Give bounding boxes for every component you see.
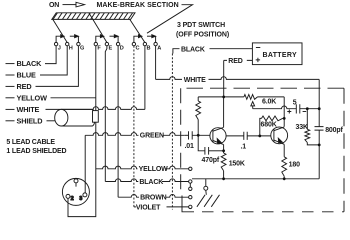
svg-text:.01: .01 [185, 143, 195, 150]
label RED (cable lead) [6, 82, 32, 91]
socket pin extra (below BLACK) [189, 183, 192, 190]
resistor R1 base bias [196, 97, 201, 135]
svg-text:YELLOW: YELLOW [139, 166, 169, 173]
svg-text:800pf: 800pf [325, 127, 343, 134]
resistor R6 33K [305, 109, 319, 145]
svg-text:A: A [157, 45, 161, 51]
wire YELLOW row [96, 166, 189, 173]
wire J to BLACK [45, 46, 56, 64]
svg-text:BROWN: BROWN [140, 195, 167, 202]
wire Q1 collector to rail [223, 97, 225, 127]
svg-text:WHITE: WHITE [17, 105, 40, 114]
arrow ON direction [63, 2, 85, 7]
switch contact C [132, 42, 139, 51]
polarity + of C4 [287, 110, 291, 114]
switch contact A [154, 42, 161, 51]
svg-text:6.0K: 6.0K [262, 98, 276, 105]
socket pin YELLOW [189, 167, 192, 170]
svg-text:G: G [80, 45, 84, 51]
wire D down to BROWN row [117, 46, 119, 197]
svg-text:470pf: 470pf [202, 157, 220, 164]
svg-text:(OFF POSITION): (OFF POSITION) [176, 32, 229, 39]
leader line to 3 PDT SWITCH text [147, 5, 193, 34]
transistor Q2 [271, 127, 288, 144]
wire BROWN row [118, 194, 189, 201]
svg-text:BLACK: BLACK [139, 179, 163, 186]
switch contact D [116, 42, 123, 51]
svg-text:J: J [58, 45, 61, 51]
switch arm pole 3 [130, 19, 145, 42]
ground rail [192, 178, 319, 180]
capacitor C5 800pf [315, 109, 324, 145]
connector pin 2 [66, 194, 74, 201]
svg-text:VIOLET: VIOLET [136, 204, 161, 211]
arrow pole2 to D [110, 35, 119, 43]
wire GREEN row [85, 133, 185, 140]
switch contact G [77, 42, 85, 51]
resistor R3 150K [221, 153, 226, 179]
polarity - of C4 [303, 111, 307, 113]
label YELLOW (cable lead) [6, 93, 48, 102]
label WHITE (cable lead) [6, 105, 40, 114]
svg-text:150K: 150K [229, 160, 245, 167]
arrow pole1 to G [70, 35, 79, 43]
cable sleeve (5 lead cable) [55, 109, 99, 126]
wire Q2 emitter [283, 144, 285, 157]
wire output node down to ground rail [318, 145, 320, 179]
svg-text:MAKE-BREAK SECTION: MAKE-BREAK SECTION [97, 2, 179, 9]
socket pin VIOLET [189, 205, 192, 208]
battery BT1 [252, 43, 302, 65]
arrow pole1 from J [56, 35, 64, 43]
switch actuator bar (hatched) [52, 13, 135, 20]
label SHIELD (cable lead) [6, 116, 43, 125]
arrow pole2 from F [96, 35, 104, 43]
chassis ground [197, 179, 220, 207]
svg-text:YELLOW: YELLOW [17, 93, 48, 102]
svg-text:5 LEAD CABLE: 5 LEAD CABLE [6, 139, 55, 146]
junction dots [197, 96, 321, 181]
wire pin3 to GREEN row [84, 135, 86, 193]
switch contact H [66, 42, 73, 51]
capacitor C3 .1 [226, 132, 274, 140]
switch arm pole 2 [89, 13, 107, 43]
label BLUE (cable lead) [6, 71, 37, 80]
wire SHIELD to cable [47, 120, 56, 122]
potentiometer R2 6.0K [244, 95, 258, 109]
svg-text:GREEN: GREEN [140, 133, 164, 140]
svg-text:H: H [69, 45, 73, 51]
wire Q2 collector to rail [283, 97, 285, 127]
svg-text:SHIELD: SHIELD [17, 116, 43, 125]
shield line (dashed) to chassis [171, 54, 173, 210]
svg-text:.1: .1 [241, 143, 247, 150]
svg-text:C: C [136, 45, 140, 51]
svg-text:BLUE: BLUE [17, 71, 37, 80]
amplifier shield box (dashed) [181, 88, 344, 212]
resistor R5 180 [282, 157, 287, 179]
wire H to BLUE [40, 46, 67, 75]
wire G to RED [36, 46, 79, 87]
arrow pole3 to A [147, 35, 156, 43]
svg-text:3 PDT SWITCH: 3 PDT SWITCH [177, 22, 225, 29]
connector shell [62, 178, 89, 205]
svg-text:BLACK: BLACK [181, 46, 205, 53]
switch contact J [54, 42, 60, 51]
wire C (shielded lead, dashed) down to VIOLET row [133, 46, 135, 207]
wire WHITE to B (crossovers) [46, 107, 145, 110]
resistor R4 680K feedback [260, 116, 284, 136]
svg-text:5: 5 [293, 99, 297, 106]
capacitor C1 .01 input [185, 131, 213, 139]
svg-text:33K: 33K [296, 124, 308, 131]
arrow pole3 from C [134, 35, 142, 43]
svg-text:E: E [109, 45, 113, 51]
svg-text:2: 2 [71, 196, 74, 202]
socket pin BROWN [189, 196, 192, 199]
svg-text:BLACK: BLACK [17, 59, 43, 68]
svg-text:B: B [147, 45, 151, 51]
capacitor C2 470pf [198, 135, 223, 154]
wire BLACK row [105, 179, 188, 186]
connector pin 3 [79, 193, 87, 202]
svg-text:680K: 680K [261, 122, 277, 129]
wire VIOLET row [134, 204, 189, 211]
svg-text:D: D [120, 45, 124, 51]
svg-text:RED: RED [17, 82, 32, 91]
capacitor C4 5uf electrolytic [296, 104, 319, 113]
connector pin 1 [74, 179, 78, 187]
switch arm pole 1 [53, 19, 67, 42]
supply rail +V [198, 96, 284, 98]
wire battery positive RED [224, 58, 253, 97]
transistor Q1 [210, 127, 226, 144]
switch contact E [105, 42, 112, 51]
svg-text:180: 180 [289, 161, 300, 168]
wiper line to coupling cap [253, 106, 297, 109]
wire battery negative BLACK [173, 46, 253, 53]
label BLACK (cable lead) [6, 59, 43, 68]
svg-text:BATTERY: BATTERY [263, 52, 297, 59]
svg-text:1 LEAD SHIELDED: 1 LEAD SHIELDED [6, 148, 66, 155]
wire A to amp output WHITE [156, 46, 320, 109]
svg-text:RED: RED [228, 58, 242, 65]
svg-text:WHITE: WHITE [184, 77, 206, 84]
wire Q1 emitter [223, 145, 225, 153]
svg-text:ON: ON [49, 2, 59, 9]
wire E down to BLACK row [105, 46, 107, 182]
switch contact B [143, 42, 150, 51]
wire B down to WHITE row [144, 46, 146, 110]
svg-text:3: 3 [79, 196, 82, 202]
wire F to YELLOW (continues down to pin 2 loop) [51, 46, 96, 217]
switch contact F [94, 42, 101, 51]
socket pin BLACK [189, 180, 192, 183]
